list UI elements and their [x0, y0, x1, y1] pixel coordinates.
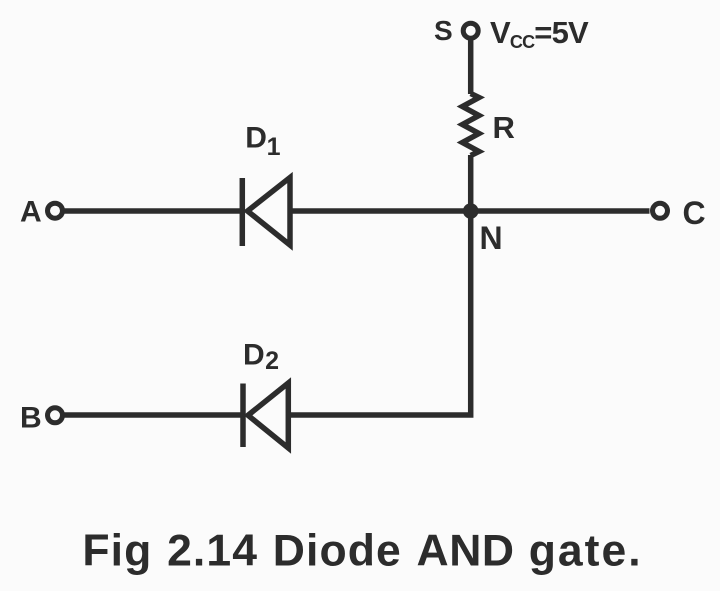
svg-text:A: A — [20, 196, 42, 229]
svg-text:C: C — [683, 195, 706, 231]
svg-text:R: R — [493, 110, 515, 145]
svg-text:VCC=5V: VCC=5V — [490, 15, 589, 52]
svg-text:N: N — [480, 220, 503, 256]
svg-text:S: S — [434, 15, 453, 46]
svg-text:B: B — [20, 402, 42, 435]
svg-text:Fig 2.14 Diode AND gate.: Fig 2.14 Diode AND gate. — [82, 526, 642, 575]
